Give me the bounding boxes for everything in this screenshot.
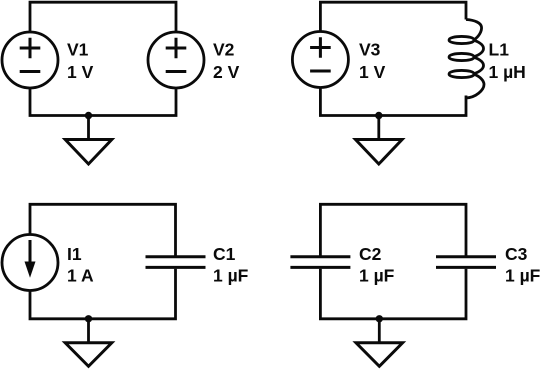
svg-text:1 µF: 1 µF: [359, 266, 395, 286]
wire top-left circuit bottom rail: [30, 88, 176, 116]
svg-text:I1: I1: [67, 244, 82, 264]
current source I1: [2, 235, 58, 291]
wire top-right circuit top rail: [320, 2, 466, 31]
svg-text:1 µH: 1 µH: [489, 62, 526, 82]
wire bottom-right circuit bottom rail: [320, 269, 466, 319]
node junction dot bottom-left: [85, 315, 92, 322]
ground bottom-left: [65, 319, 112, 367]
inductor L1: [449, 20, 484, 99]
svg-text:2 V: 2 V: [213, 62, 240, 82]
node junction dot bottom-right: [376, 315, 383, 322]
voltage source V1: [2, 32, 58, 88]
capacitor C2: [290, 257, 350, 268]
svg-text:1 µF: 1 µF: [505, 266, 540, 286]
svg-text:1 A: 1 A: [67, 266, 94, 286]
node junction dot top-left: [85, 112, 92, 119]
wire bottom-right circuit top rail: [320, 204, 466, 255]
svg-text:V3: V3: [359, 40, 381, 60]
voltage source V3: [292, 32, 348, 88]
wire top-left circuit top rail: [30, 2, 176, 32]
svg-text:1 V: 1 V: [67, 62, 94, 82]
svg-text:V2: V2: [213, 40, 235, 60]
svg-text:C2: C2: [359, 244, 382, 264]
ground bottom-right: [356, 319, 403, 367]
wire bottom-left circuit top rail: [30, 204, 176, 255]
capacitor C1: [146, 257, 206, 268]
node junction dot top-right: [375, 112, 382, 119]
ground top-left: [65, 116, 112, 165]
ground top-right: [356, 116, 403, 165]
capacitor C3: [436, 257, 496, 268]
svg-text:1 V: 1 V: [359, 62, 386, 82]
voltage source V2: [148, 32, 204, 88]
wire bottom-left circuit bottom rail: [30, 269, 176, 319]
svg-text:C1: C1: [213, 244, 236, 264]
svg-text:1 µF: 1 µF: [213, 266, 249, 286]
wire top-right circuit bottom rail: [320, 88, 466, 116]
svg-text:L1: L1: [489, 40, 510, 60]
svg-text:V1: V1: [67, 40, 89, 60]
svg-text:C3: C3: [505, 244, 528, 264]
